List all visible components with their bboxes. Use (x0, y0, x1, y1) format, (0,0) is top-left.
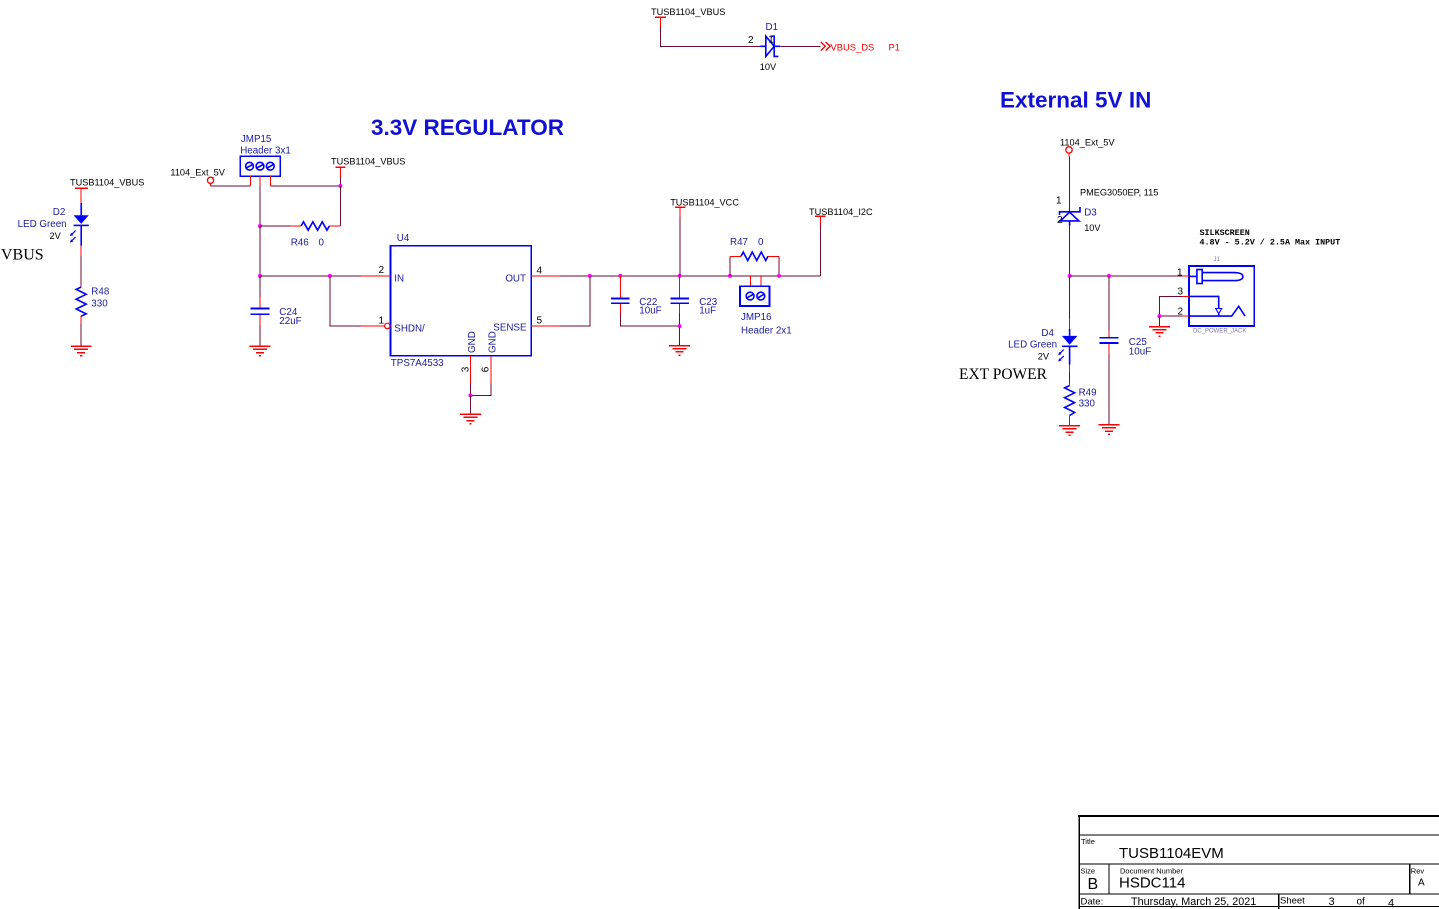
junction (C23 tap) (678, 274, 682, 278)
svg-text:U4: U4 (397, 233, 410, 244)
svg-text:D1: D1 (766, 22, 779, 33)
svg-text:1104_Ext_5V: 1104_Ext_5V (1060, 138, 1115, 148)
svg-text:Header 3x1: Header 3x1 (240, 145, 291, 156)
resistor R46 0 (260, 222, 340, 249)
wire to ground (U4) (469, 395, 471, 414)
connector JMP15 Header 3x1 (240, 134, 291, 186)
wire OUT rail up to I2C label (819, 226, 821, 276)
svg-text:TUSB1104_VCC: TUSB1104_VCC (670, 198, 739, 208)
pin 1 SHDN/ (361, 315, 425, 334)
ground (below R48) (71, 346, 92, 355)
wire D4 to R49 (1069, 365, 1071, 386)
svg-text:22uF: 22uF (279, 316, 301, 327)
pin 5 SENSE (493, 316, 560, 334)
LED D2 LED Green 2V (18, 203, 89, 246)
capacitor C24 22uF (250, 276, 301, 327)
resistor R49 330 (1065, 386, 1097, 416)
junction (VBUS node at header) (338, 184, 342, 188)
svg-text:GND: GND (487, 331, 498, 353)
off-page connector VBUS_DS P1 (821, 41, 900, 52)
net label 1104_Ext_5V (right) (1060, 138, 1115, 157)
svg-text:of: of (1357, 897, 1366, 908)
svg-text:10V: 10V (1084, 223, 1101, 233)
junction (C22 tap) (618, 274, 622, 278)
wire down to ground (J1) (1158, 316, 1160, 326)
svg-text:0: 0 (319, 238, 325, 249)
text SILKSCREEN note (1200, 228, 1341, 248)
svg-text:J1: J1 (1214, 257, 1221, 263)
wire C24 to ground (259, 325, 261, 346)
diode D1 10V zener (748, 22, 780, 72)
wire IN rail (260, 275, 361, 277)
pin 4 OUT (505, 266, 560, 285)
connector J1 DC_POWER_JACK (1189, 257, 1254, 335)
svg-text:TUSB1104_VBUS: TUSB1104_VBUS (70, 178, 144, 188)
svg-text:R49: R49 (1079, 388, 1097, 399)
wire SENSE loop (560, 276, 590, 326)
svg-text:TUSB1104_VBUS: TUSB1104_VBUS (651, 7, 725, 17)
svg-text:4: 4 (537, 266, 543, 277)
wire 1104_Ext_5V to JMP15 pin1 (211, 185, 251, 187)
ground (below R49) (1059, 426, 1080, 435)
resistor R47 0 (730, 237, 779, 276)
wire J1 pin3 to pin2 net (1159, 296, 1182, 316)
wire R49 to ground (1069, 416, 1071, 426)
svg-text:LED Green: LED Green (18, 219, 67, 230)
junction (SHDN branch) (328, 274, 332, 278)
svg-text:Rev: Rev (1411, 867, 1425, 876)
svg-text:VBUS: VBUS (1, 247, 44, 264)
wire down to ground (caps) (679, 326, 681, 345)
net label TUSB1104_I2C (809, 207, 873, 225)
capacitor C25 10uF (1100, 276, 1152, 358)
svg-text:1: 1 (378, 315, 384, 326)
svg-text:1104_Ext_5V: 1104_Ext_5V (170, 167, 225, 177)
svg-text:SILKSCREEN: SILKSCREEN (1200, 228, 1250, 238)
svg-text:0: 0 (758, 237, 764, 248)
pin 3 (J1) (1177, 287, 1189, 298)
junction (middle pin / R46 row) (258, 224, 262, 228)
svg-text:2: 2 (378, 265, 384, 276)
wire GND pins join (470, 384, 491, 396)
junction (GND join) (468, 393, 472, 397)
svg-text:6: 6 (481, 366, 492, 372)
wire R48 to ground (80, 316, 82, 346)
svg-text:DC_POWER_JACK: DC_POWER_JACK (1193, 329, 1246, 335)
ground (below C25) (1099, 425, 1120, 434)
svg-text:4.8V - 5.2V / 2.5A Max INPUT: 4.8V - 5.2V / 2.5A Max INPUT (1200, 237, 1341, 247)
svg-text:2V: 2V (50, 231, 62, 241)
pin 2 IN (361, 265, 404, 285)
svg-text:1: 1 (1056, 196, 1062, 207)
regulator U4 TPS7A4533 (391, 233, 532, 369)
capacitor C22 10uF (611, 276, 662, 317)
junction (cap ground join) (678, 324, 682, 328)
net label TUSB1104_VBUS (at JMP15) (331, 157, 405, 186)
svg-text:Title: Title (1081, 837, 1095, 846)
diode D3 PMEG3050EP (1056, 188, 1158, 233)
svg-text:EXT POWER: EXT POWER (959, 366, 1048, 383)
ground (below C24) (250, 346, 271, 355)
wire D1 to VBUS_DS (780, 45, 820, 47)
svg-text:SHDN/: SHDN/ (394, 324, 425, 335)
wire D3 to EXT rail (1069, 226, 1071, 276)
svg-text:2: 2 (1057, 215, 1063, 226)
capacitor C23 1uF (670, 276, 717, 317)
svg-text:4: 4 (1388, 898, 1394, 909)
svg-text:JMP16: JMP16 (741, 312, 772, 323)
pin 1 (J1) (1177, 267, 1189, 278)
pin 3 GND (460, 331, 478, 383)
svg-text:D2: D2 (53, 207, 66, 218)
svg-text:SENSE: SENSE (493, 323, 527, 334)
wire SHDN branch (330, 276, 361, 326)
svg-text:10V: 10V (760, 62, 777, 72)
svg-text:Size: Size (1081, 867, 1096, 876)
svg-text:330: 330 (1079, 398, 1096, 409)
junction (C25 tap) (1107, 274, 1111, 278)
junction (R47 right) (777, 274, 781, 278)
svg-text:External 5V IN: External 5V IN (1000, 87, 1151, 112)
svg-text:10uF: 10uF (1129, 347, 1151, 358)
wire TUSB1104_VBUS to D1 (661, 27, 760, 46)
svg-text:TUSB1104_VBUS: TUSB1104_VBUS (331, 157, 405, 167)
wire OUT rail (560, 275, 820, 277)
svg-text:Header 2x1: Header 2x1 (741, 326, 792, 337)
svg-text:A: A (1418, 878, 1425, 889)
pin 6 GND (481, 331, 499, 383)
wire C22 bottom to C23 bottom (620, 313, 679, 326)
svg-text:3: 3 (1329, 896, 1335, 908)
title block frame (1078, 815, 1439, 909)
svg-text:R48: R48 (91, 286, 110, 297)
svg-text:1uF: 1uF (699, 305, 716, 316)
net label TUSB1104_VBUS (left, VBUS LED branch) (70, 178, 144, 204)
svg-text:10uF: 10uF (639, 305, 661, 316)
wire 1104_Ext_5V to D3 (1068, 157, 1070, 212)
svg-text:LED Green: LED Green (1008, 340, 1057, 351)
svg-text:D4: D4 (1041, 328, 1054, 339)
svg-text:HSDC114: HSDC114 (1119, 875, 1185, 892)
resistor R48 330 (76, 286, 110, 316)
svg-text:OUT: OUT (505, 274, 526, 285)
svg-text:GND: GND (467, 331, 478, 353)
svg-text:R46: R46 (291, 238, 310, 249)
svg-text:TUSB1104_I2C: TUSB1104_I2C (809, 207, 873, 217)
net label 1104_Ext_5V (left) (170, 167, 225, 186)
net label TUSB1104_VBUS (top) (651, 7, 725, 27)
connector JMP16 Header 2x1 (740, 276, 792, 337)
svg-text:JMP15: JMP15 (241, 134, 272, 145)
wire EXT rail (1070, 275, 1183, 277)
svg-text:Sheet: Sheet (1280, 896, 1305, 907)
junction (C24 tap) (258, 274, 262, 278)
svg-text:Thursday, March 25, 2021: Thursday, March 25, 2021 (1131, 896, 1256, 908)
svg-text:2: 2 (748, 35, 754, 46)
svg-text:P1: P1 (889, 41, 900, 52)
svg-text:D3: D3 (1084, 208, 1097, 219)
junction (J1 ground) (1157, 314, 1161, 318)
wire JMP15 pin3 to TUSB1104_VBUS node (270, 185, 340, 187)
wire R46 row down to IN rail (259, 226, 261, 276)
svg-text:PMEG3050EP, 115: PMEG3050EP, 115 (1080, 188, 1158, 198)
svg-text:1: 1 (1177, 267, 1183, 278)
wire C23 to ground (679, 313, 681, 326)
svg-text:330: 330 (91, 298, 108, 309)
svg-text:Date:: Date: (1081, 897, 1104, 908)
svg-text:TPS7A4533: TPS7A4533 (391, 358, 444, 369)
svg-text:3.3V REGULATOR: 3.3V REGULATOR (371, 115, 564, 140)
pin 2 (J1) (1177, 306, 1189, 317)
ground (J1) (1149, 327, 1170, 336)
wire D2 to R48 (80, 246, 82, 287)
svg-text:VBUS_DS: VBUS_DS (831, 41, 875, 52)
svg-text:IN: IN (394, 274, 404, 285)
LED D4 LED Green 2V (1008, 276, 1077, 365)
svg-text:3: 3 (460, 366, 471, 372)
svg-text:5: 5 (537, 316, 543, 327)
wire VBUS node down to R46 (339, 186, 341, 226)
svg-text:2V: 2V (1038, 352, 1050, 362)
wire TUSB1104_VCC to OUT rail (679, 217, 681, 276)
net label TUSB1104_VCC (670, 198, 739, 218)
junction (SENSE loop) (588, 274, 592, 278)
wire C25 to ground (1108, 355, 1110, 424)
svg-text:TUSB1104EVM: TUSB1104EVM (1119, 845, 1224, 862)
ground (below C23) (669, 346, 690, 355)
junction (R47 left) (728, 274, 732, 278)
wire JMP15 pin2 down (259, 186, 261, 226)
svg-text:B: B (1088, 876, 1099, 893)
ground (below U4) (460, 414, 481, 423)
junction (D4 tap) (1068, 274, 1072, 278)
svg-text:1: 1 (768, 35, 774, 46)
wire J1 pin2 to ground (1159, 315, 1182, 317)
svg-text:R47: R47 (730, 237, 748, 248)
